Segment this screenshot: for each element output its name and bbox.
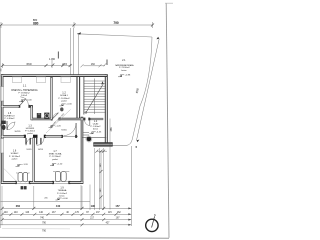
- svg-text:1.060: 1.060: [49, 58, 56, 61]
- corridor label: [25, 124, 36, 135]
- living elevation flag: [19, 100, 32, 102]
- terrace elevation flag: [56, 198, 69, 200]
- room2 elevation flag: [60, 104, 73, 106]
- svg-text:90/205: 90/205: [15, 131, 21, 133]
- svg-text:+0.00: +0.00: [26, 100, 32, 102]
- left wall: [1, 74, 4, 183]
- wall C right opening sill: [62, 135, 78, 137]
- bedroom2 label: [49, 150, 62, 161]
- interior wall A: [1, 105, 19, 107]
- sheet border bottom: [0, 236, 169, 239]
- wall white cores: [2, 75, 107, 183]
- slant dimension line: [136, 37, 160, 148]
- svg-text:DNEVNI + TRPEZARIJA: DNEVNI + TRPEZARIJA: [11, 89, 38, 92]
- sheet border top stub: [165, 2, 173, 4]
- french door 2 arcs + panels: [53, 171, 69, 181]
- french door 1 sill: [16, 181, 30, 183]
- stair well left edge: [83, 77, 85, 115]
- svg-text:beton: beton: [121, 69, 126, 72]
- svg-text:beton: beton: [93, 128, 98, 131]
- svg-text:+1.20: +1.20: [22, 164, 28, 166]
- ulaz bottom edge: [82, 136, 106, 138]
- wardrobe living 1: [12, 77, 21, 83]
- sheet border right: [166, 3, 169, 238]
- door jamb blocks wall C: [24, 135, 46, 138]
- entrance hall label: [91, 120, 102, 131]
- living room label: [11, 84, 38, 98]
- leader verticals to wall: [70, 28, 78, 75]
- parcel boundary top edge: [77, 32, 152, 145]
- svg-text:N: N: [154, 214, 156, 217]
- svg-text:+0.00: +0.00: [62, 198, 68, 200]
- leader from boundary corner down: [130, 146, 132, 226]
- svg-text:-0.45: -0.45: [96, 132, 102, 134]
- bottom wall: [1, 181, 83, 184]
- svg-text:790: 790: [42, 230, 47, 233]
- building top wall: [1, 74, 108, 77]
- bottom dim row 3: [1, 218, 132, 221]
- north arrow circle: [146, 219, 158, 231]
- svg-text:90/205: 90/205: [38, 149, 43, 151]
- interior wall B: [32, 118, 52, 120]
- bottom dim row 4: [0, 223, 132, 226]
- svg-text:parket: parket: [12, 157, 18, 160]
- bedroom1 label: [9, 150, 21, 161]
- wall room2/stair double line: [76, 77, 78, 119]
- bottom dim row 1: [1, 207, 132, 210]
- door arc wall C right opening: [64, 123, 77, 136]
- svg-text:160: 160: [91, 63, 96, 66]
- room2 label: [58, 90, 70, 102]
- svg-text:660: 660: [26, 62, 31, 66]
- svg-text:+1.20: +1.20: [57, 163, 63, 165]
- bedroom1 diagonal: [4, 169, 17, 182]
- door corridor to bedroom1: [26, 138, 34, 146]
- porch slab: [94, 143, 113, 147]
- entrance steps: [83, 132, 89, 134]
- bathroom right wall: [31, 105, 33, 120]
- terrace label below: [57, 187, 68, 198]
- bathroom fixtures: [1, 121, 6, 124]
- svg-text:SOBA 1: SOBA 1: [60, 94, 69, 97]
- wardrobe living 2: [36, 77, 45, 83]
- terrace2 elevation flag: [118, 75, 131, 77]
- stairs treads: [84, 81, 106, 112]
- door corridor to bedroom2: [37, 138, 45, 146]
- covered terrace label: [115, 59, 134, 72]
- entrance elevation flag: [90, 132, 102, 134]
- svg-text:parket: parket: [27, 132, 33, 135]
- svg-text:880: 880: [33, 22, 39, 26]
- parcel boundary slanted edge: [127, 37, 152, 145]
- interior wall C with openings: [1, 135, 62, 137]
- top dimension row 2: [1, 60, 72, 68]
- right side vertical dim leaders: [90, 119, 110, 211]
- corridor diagonal label: [46, 110, 71, 134]
- svg-text:SPAV. SOBA: SPAV. SOBA: [49, 153, 62, 156]
- bedroom2 elevation flag: [50, 163, 63, 165]
- svg-text:90/205: 90/205: [26, 149, 31, 151]
- svg-text:190: 190: [91, 204, 96, 208]
- parcel bottom edge: [104, 144, 127, 146]
- svg-text:parket: parket: [61, 99, 67, 102]
- svg-text:P: 4.80m2: P: 4.80m2: [5, 118, 16, 120]
- svg-text:440: 440: [56, 204, 61, 208]
- bedrooms divider wall: [32, 138, 34, 183]
- porch column: [87, 137, 92, 142]
- svg-text:205: 205: [44, 198, 47, 200]
- svg-text:parket: parket: [52, 158, 58, 161]
- stair arrow: [86, 84, 104, 113]
- stair bay right wall: [104, 74, 106, 143]
- stair stringer: [94, 79, 96, 115]
- right vertical dim line: [95, 150, 107, 209]
- svg-text:157: 157: [115, 204, 120, 208]
- svg-text:SOBA 2: SOBA 2: [11, 152, 20, 155]
- svg-text:1.2: 1.2: [62, 90, 66, 94]
- svg-text:1.1: 1.1: [23, 84, 27, 88]
- svg-text:+1.20: +1.20: [55, 125, 61, 127]
- ghost row: [2, 228, 70, 230]
- right wall lower part: [81, 117, 84, 184]
- stair top dim ticks: [81, 60, 108, 68]
- outdoor terrace outline: [1, 201, 91, 203]
- top dimension row 1: [0, 22, 154, 28]
- svg-text:P: 23.90m2: P: 23.90m2: [119, 67, 130, 69]
- svg-text:90/205: 90/205: [61, 129, 67, 131]
- kitchen fixtures: [37, 113, 41, 119]
- bottom dim row 2: [1, 213, 132, 216]
- left vertical dim leaders to bottom rows: [2, 186, 82, 225]
- door jambs bottom wall: [15, 135, 77, 184]
- svg-text:270: 270: [62, 62, 67, 66]
- svg-text:+0.00: +0.00: [66, 104, 72, 106]
- svg-text:260: 260: [16, 204, 21, 208]
- svg-text:790: 790: [113, 21, 119, 25]
- svg-text:TERASA: TERASA: [58, 189, 67, 192]
- svg-text:ULAZ: ULAZ: [93, 122, 99, 125]
- french door 2 sill: [53, 181, 69, 183]
- svg-text:1.60=3: 1.60=3: [21, 95, 28, 97]
- window left 2: [1, 139, 4, 154]
- window left 1: [1, 87, 4, 102]
- wall living/room2: [50, 77, 52, 120]
- svg-text:358: 358: [110, 127, 113, 132]
- wardrobe room2: [61, 77, 70, 83]
- bathroom label: [4, 112, 15, 120]
- french door 1 arcs + panels: [16, 173, 30, 182]
- threshold hatch below door1: [21, 186, 27, 189]
- svg-text:+2.88: +2.88: [125, 75, 131, 77]
- left sheet vertical dim line: [0, 25, 1, 228]
- bedroom1 elevation flag: [16, 164, 29, 166]
- bathroom door arc: [7, 122, 15, 130]
